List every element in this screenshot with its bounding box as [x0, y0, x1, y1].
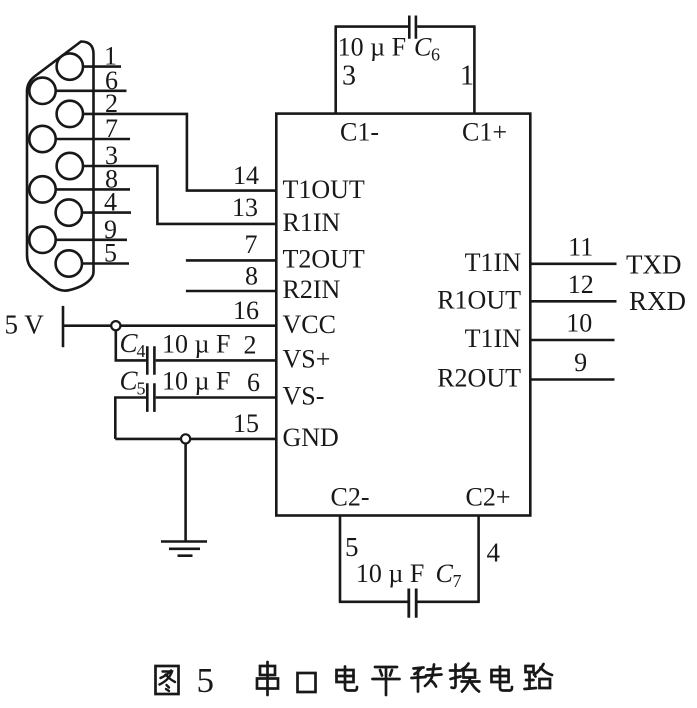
wire node to ground	[184, 444, 187, 542]
wire DB9 pin 8	[56, 188, 130, 191]
wire GND pin 15	[115, 438, 276, 441]
svg-text:4: 4	[487, 538, 501, 568]
wire DB9 pin 7	[56, 138, 130, 141]
svg-text:7: 7	[105, 114, 118, 143]
svg-text:4: 4	[104, 188, 117, 217]
DB9 pin 3 hole	[57, 153, 83, 179]
caption char 电	[337, 667, 358, 691]
capacitor C4 plates	[147, 346, 154, 375]
svg-text:VS-: VS-	[283, 382, 325, 411]
svg-text:10 µ F: 10 µ F	[162, 367, 230, 396]
wire DB9 pin 5	[82, 262, 129, 265]
DB9 connector J1 outline	[27, 42, 94, 291]
svg-text:R2IN: R2IN	[283, 275, 341, 304]
wire R2IN pin 8	[186, 290, 276, 293]
caption char 串	[257, 662, 278, 695]
DB9 pin 9 hole	[29, 227, 55, 253]
DB9 pin 2 hole	[57, 101, 83, 127]
capacitor C7 plates	[409, 589, 416, 618]
svg-text:R1OUT: R1OUT	[437, 285, 521, 314]
ground symbol	[161, 542, 207, 556]
svg-text:T1OUT: T1OUT	[283, 175, 365, 204]
svg-text:9: 9	[574, 348, 587, 377]
capacitor C5 plates	[147, 383, 154, 412]
svg-text:C: C	[414, 32, 432, 61]
wire C1- pin 3 riser	[334, 27, 337, 114]
svg-text:TXD: TXD	[626, 249, 682, 279]
caption char 图	[156, 666, 179, 694]
DB9 pin 7 hole	[29, 126, 55, 152]
svg-text:C1+: C1+	[462, 118, 507, 147]
node at GND line	[181, 434, 190, 443]
svg-text:RXD: RXD	[629, 286, 686, 316]
svg-text:10 µ F: 10 µ F	[162, 330, 230, 359]
svg-text:16: 16	[233, 296, 259, 325]
wire DB9 pin 1	[83, 65, 121, 68]
wire DB9 pin 9	[56, 239, 127, 242]
caption char 平	[373, 667, 400, 695]
caption char 转	[412, 665, 442, 692]
svg-text:VCC: VCC	[283, 310, 336, 339]
svg-text:5: 5	[104, 239, 117, 268]
svg-text:7: 7	[453, 571, 462, 591]
svg-text:4: 4	[137, 341, 146, 361]
svg-text:GND: GND	[283, 423, 339, 452]
svg-text:8: 8	[245, 262, 258, 291]
svg-text:13: 13	[232, 193, 258, 222]
wire 5V to VCC pin 16	[64, 324, 276, 327]
svg-text:2: 2	[244, 331, 257, 360]
svg-text:C: C	[436, 559, 454, 588]
svg-text:1: 1	[460, 61, 474, 92]
svg-text:3: 3	[342, 61, 356, 92]
wire C2- pin 5 dropper	[339, 516, 342, 602]
wire DB9 pin 3 to R1IN pin 13	[83, 166, 276, 224]
wire C5 to VS- pin 6	[156, 396, 277, 399]
svg-text:10 µ F: 10 µ F	[356, 559, 424, 588]
svg-text:12: 12	[568, 270, 594, 299]
wire T1IN pin 10	[530, 339, 614, 342]
svg-text:11: 11	[568, 232, 593, 261]
svg-text:6: 6	[247, 368, 260, 397]
wire C6 top left segment	[335, 25, 409, 28]
DB9 pin 1 hole	[57, 53, 83, 79]
svg-text:R2OUT: R2OUT	[437, 364, 521, 393]
svg-text:7: 7	[245, 230, 258, 259]
svg-text:15: 15	[233, 409, 259, 438]
svg-text:VS+: VS+	[283, 344, 331, 373]
svg-text:14: 14	[233, 161, 259, 190]
IC U1 body (MAX232)	[276, 114, 530, 516]
DB9 pin 4 hole	[56, 199, 82, 225]
wire R2OUT pin 9	[530, 378, 614, 381]
wire C2+ pin 4 dropper	[477, 516, 480, 602]
wire C7 bottom left segment	[339, 600, 408, 603]
wire T2OUT pin 7	[186, 259, 276, 262]
svg-text:C1-: C1-	[340, 118, 379, 147]
DB9 pin 5 hole	[56, 250, 82, 276]
wire C5 left to GND line	[115, 398, 146, 439]
svg-text:6: 6	[431, 45, 440, 65]
wire R1OUT pin 12	[530, 300, 616, 303]
wire C1+ pin 1 riser	[473, 27, 476, 114]
svg-text:T1IN: T1IN	[465, 324, 522, 353]
power 5V terminal bar	[62, 306, 65, 347]
wire DB9 pin 4	[82, 211, 131, 214]
caption char 路	[525, 664, 553, 689]
svg-text:R1IN: R1IN	[283, 208, 341, 237]
wire DB9 pin 2 to T1OUT pin 14	[83, 114, 276, 191]
svg-text:5: 5	[345, 532, 359, 562]
svg-text:C2-: C2-	[331, 483, 370, 512]
DB9 pin 6 hole	[29, 78, 55, 104]
capacitor C6 plates	[409, 16, 416, 39]
caption char 口	[298, 673, 316, 692]
wire C6 top right segment	[417, 25, 475, 28]
wire C7 bottom right segment	[418, 600, 480, 603]
wire node down to C4	[116, 330, 146, 360]
caption char 换	[450, 664, 480, 692]
node at VCC line	[111, 321, 120, 330]
svg-text:T1IN: T1IN	[465, 248, 522, 277]
svg-text:5: 5	[137, 379, 146, 399]
wire C4 to VS+ pin 2	[156, 359, 277, 362]
svg-text:5: 5	[197, 661, 215, 700]
svg-text:10 µ F: 10 µ F	[338, 32, 406, 61]
svg-text:C2+: C2+	[466, 483, 511, 512]
caption char 电 (second)	[492, 667, 513, 691]
svg-text:5 V: 5 V	[5, 310, 45, 340]
svg-text:T2OUT: T2OUT	[283, 244, 365, 273]
wire DB9 pin 6	[56, 90, 127, 93]
DB9 pin 8 hole	[29, 176, 55, 202]
svg-text:10: 10	[566, 309, 592, 338]
wire T1IN pin 11	[530, 262, 616, 265]
